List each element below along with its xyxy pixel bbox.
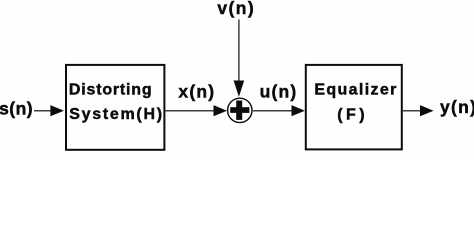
arrowhead to y(n) output [420,105,434,116]
wire: Distorting System to summer [166,110,216,112]
svg-text:System(H): System(H) [69,106,163,123]
block H: Distorting System [66,65,164,150]
block F: Equalizer [306,65,402,149]
svg-text:x(n): x(n) [178,82,215,102]
svg-text:(F): (F) [337,106,368,123]
wire: summer to Equalizer [253,110,293,112]
arrowhead into Equalizer [292,105,305,116]
summing junction [228,98,252,122]
svg-text:Equalizer: Equalizer [314,82,397,99]
wire: Equalizer to y(n) [403,110,422,112]
svg-text:y(n): y(n) [440,97,474,117]
arrowhead into Distorting System [50,105,64,116]
svg-text:Distorting: Distorting [69,81,153,98]
arrowhead into summer (top) [234,81,245,97]
svg-text:s(n): s(n) [0,98,33,118]
wire: s(n) to Distorting System [34,110,52,112]
arrowhead into summer (left) [214,105,228,116]
svg-text:u(n): u(n) [260,82,298,102]
wire: v(n) down to summer [238,20,240,86]
svg-text:v(n): v(n) [217,0,255,18]
